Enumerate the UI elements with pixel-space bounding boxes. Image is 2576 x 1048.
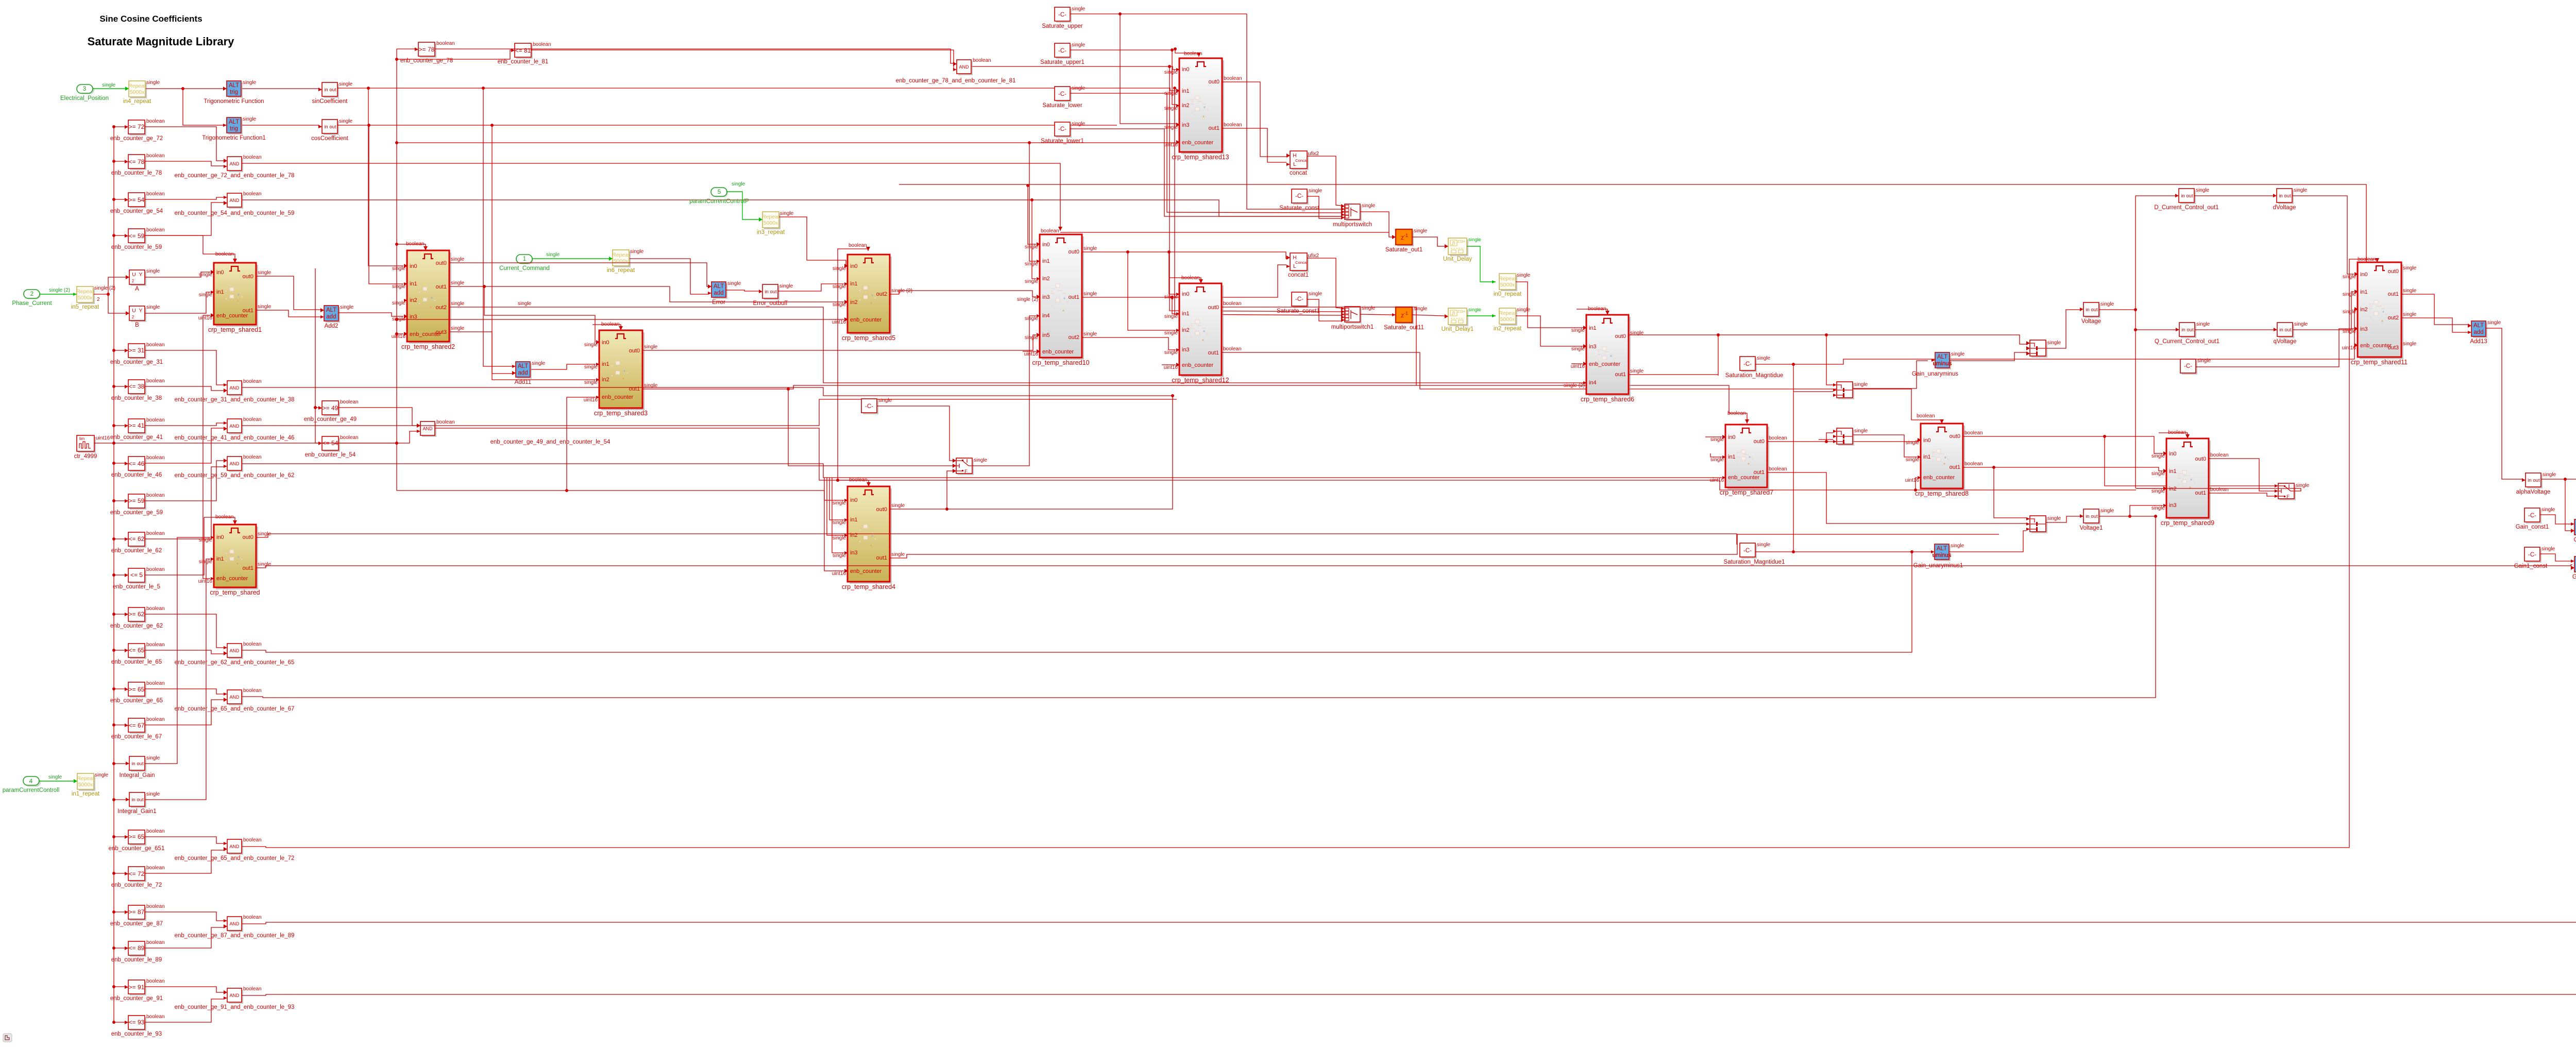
- svg-text:in0: in0: [2169, 451, 2177, 457]
- svg-text:in2: in2: [410, 297, 417, 303]
- wire crp1 out0 to Add2 in1: [256, 276, 320, 310]
- svg-text:enb_counter_le_93: enb_counter_le_93: [111, 1031, 162, 1037]
- svg-text:in: in: [324, 87, 328, 93]
- unit delay Saturate_out1: [1397, 231, 1414, 246]
- svg-text:in2: in2: [850, 299, 858, 306]
- svg-text:in1: in1: [602, 361, 609, 367]
- svg-text:-C-: -C-: [1058, 12, 1066, 18]
- wire crp2 out1 to crp5 in2: [449, 286, 844, 302]
- svg-text:add: add: [2473, 329, 2483, 335]
- svg-text:out: out: [137, 797, 144, 803]
- svg-text:crp_temp_shared4: crp_temp_shared4: [842, 583, 895, 590]
- svg-text:single: single: [2343, 292, 2357, 297]
- svg-text:single: single: [727, 281, 741, 286]
- svg-text:in3: in3: [410, 314, 417, 320]
- svg-text:boolean: boolean: [146, 1014, 165, 1020]
- wire spine to enb_counter_ge_54: [114, 199, 125, 200]
- compare block enb_counter_le_5: [130, 570, 146, 584]
- wire sinCoefficient long line to crp13 in1: [337, 88, 1176, 91]
- svg-text:in1: in1: [1042, 258, 1050, 264]
- wire crp7 out1 long to switch and selector4: [1767, 472, 2026, 523]
- svg-text:enb_counter_le_5: enb_counter_le_5: [113, 584, 160, 590]
- svg-text:boolean: boolean: [1727, 411, 1746, 416]
- svg-text:out1: out1: [2195, 490, 2206, 496]
- svg-text:>= 65: >= 65: [129, 686, 145, 693]
- svg-text:-C-: -C-: [1058, 91, 1066, 97]
- svg-text:enb_counter: enb_counter: [216, 576, 248, 582]
- svg-text:single: single: [2541, 546, 2555, 552]
- svg-text:single: single: [732, 181, 745, 187]
- and gate enb_counter_ge_62_and_enb_counter_le_65: [229, 645, 243, 659]
- wire Current_Command to in6_repeat: [532, 258, 613, 259]
- inout block cosCoefficient: [324, 121, 339, 135]
- and gate enb_counter_ge_72_and_enb_counter_le_78: [229, 158, 243, 172]
- repeat block in3_repeat: [764, 213, 781, 229]
- svg-text:in3: in3: [1589, 344, 1597, 350]
- svg-text:Gain11: Gain11: [2572, 574, 2576, 580]
- svg-text:Gain1: Gain1: [2574, 537, 2576, 543]
- svg-text:enb_counter_ge_91_and_enb_coun: enb_counter_ge_91_and_enb_counter_le_93: [175, 1004, 295, 1010]
- and gate enb_counter_ge_41_and_enb_counter_le_46: [229, 420, 243, 434]
- svg-text:uint16: uint16: [832, 571, 846, 577]
- subsystem crp_temp_shared9: [2168, 441, 2211, 520]
- svg-text:uint16: uint16: [198, 579, 213, 584]
- wire Saturate_const to multiportswitch: [1307, 196, 1341, 218]
- wire le_46 to AND: [145, 428, 224, 463]
- switch block near crp9: [2280, 485, 2296, 500]
- wire spine to enb_counter_ge_41: [114, 425, 125, 426]
- constant block near crp9 area: [2182, 361, 2197, 375]
- wire crp5 enb uint16 from trunk: [397, 319, 844, 320]
- svg-text:single: single: [1951, 351, 1965, 357]
- constant Saturate_lower1: [1056, 124, 1072, 138]
- wire le_62 to AND (59_62): [145, 467, 224, 539]
- svg-text:in1: in1: [2360, 289, 2368, 295]
- wire Add2 out to crp2 in3: [338, 313, 403, 316]
- svg-text:U: U: [132, 308, 135, 314]
- svg-text:-C-: -C-: [1058, 48, 1066, 54]
- svg-text:Gain_const1: Gain_const1: [2516, 524, 2549, 530]
- selector block selector4: [2031, 517, 2047, 533]
- multiport switch multiportswitch: [1346, 206, 1362, 221]
- svg-text:enb_counter_ge_31_and_enb_coun: enb_counter_ge_31_and_enb_counter_le_38: [175, 397, 295, 403]
- unit delay block Unit_Delay: [1450, 240, 1468, 256]
- svg-text:boolean: boolean: [146, 493, 165, 498]
- svg-text:<= 81: <= 81: [515, 47, 531, 54]
- svg-text:Repeat: Repeat: [1499, 276, 1516, 282]
- svg-text:Repeat: Repeat: [612, 252, 630, 258]
- svg-text:2: 2: [132, 279, 134, 283]
- svg-text:Sine Cosine Coefficients: Sine Cosine Coefficients: [99, 14, 202, 24]
- wire crp1 out1 to Add2 in2: [256, 310, 320, 317]
- subsystem crp_temp_shared1: [216, 265, 258, 327]
- wire Add11 to crp3 in1: [531, 364, 596, 369]
- input port 5 paramCurrentControlP: [712, 189, 728, 197]
- wire le_78 to AND: [145, 161, 224, 166]
- svg-text:in3: in3: [1042, 294, 1050, 300]
- svg-text:crp_temp_shared13: crp_temp_shared13: [1172, 154, 1229, 161]
- wire Error to Error_outbuff: [726, 290, 759, 291]
- svg-text:AND: AND: [229, 198, 240, 203]
- wire crp8 out1 to crp9 in1 and selector4: [1963, 467, 2163, 471]
- svg-text:boolean: boolean: [146, 904, 165, 909]
- svg-text:single: single: [340, 305, 354, 310]
- svg-text:single: single: [780, 211, 794, 216]
- svg-text:single: single: [2487, 320, 2501, 326]
- svg-text:>= 62: >= 62: [129, 611, 145, 618]
- svg-text:A: A: [135, 286, 139, 292]
- svg-text:multiportswitch1: multiportswitch1: [1331, 324, 1374, 330]
- svg-text:in4: in4: [1042, 313, 1050, 319]
- svg-text:crp_temp_shared12: crp_temp_shared12: [1172, 377, 1229, 384]
- svg-text:Y: Y: [139, 272, 143, 278]
- svg-text:Repeat: Repeat: [77, 775, 94, 782]
- svg-text:crp_temp_shared6: crp_temp_shared6: [1581, 396, 1634, 403]
- svg-text:boolean: boolean: [243, 454, 262, 460]
- wire ge_41 to AND: [145, 423, 224, 426]
- and gate enb_counter_ge_54_and_enb_counter_le_59: [229, 195, 243, 209]
- svg-text:single: single: [974, 458, 988, 463]
- input port 1 Current_Command: [517, 256, 533, 264]
- selector block A: [131, 272, 146, 286]
- svg-text:out1: out1: [629, 386, 640, 392]
- svg-text:enb_counter_le_54: enb_counter_le_54: [305, 452, 356, 458]
- svg-text:enb_counter_ge_72: enb_counter_ge_72: [110, 136, 163, 142]
- svg-text:boolean: boolean: [1041, 228, 1059, 234]
- wire crp2 out2 long to crp6 in4 single(2): [449, 307, 1583, 383]
- wire selector4 to Voltage1: [2046, 516, 2080, 522]
- svg-text:boolean: boolean: [146, 378, 165, 384]
- svg-text:in: in: [2181, 193, 2184, 199]
- wire Gain1_const to Gain11: [2540, 554, 2572, 561]
- svg-text:enb_counter_le_81: enb_counter_le_81: [498, 59, 548, 65]
- svg-text:in1: in1: [1923, 454, 1931, 460]
- selector block selector1: [2031, 342, 2047, 358]
- wire crp7 out0 to selector3 and crp8 in0: [1767, 440, 1917, 442]
- svg-text:in4_repeat: in4_repeat: [123, 98, 151, 105]
- svg-text:Gain_unaryminus1: Gain_unaryminus1: [1913, 563, 1963, 569]
- wire Gain_const1 to Gain1: [2540, 515, 2572, 524]
- svg-text:single: single: [2403, 341, 2417, 347]
- wire spine to enb_counter_le_78: [114, 161, 125, 162]
- wire crp6 out1: [1629, 374, 1718, 375]
- svg-text:Integral_Gain: Integral_Gain: [119, 772, 155, 779]
- subsystem crp_temp_shared7: [1727, 427, 1769, 489]
- wire concat to multiportswitch: [1307, 156, 1341, 206]
- svg-text:<= 46: <= 46: [129, 460, 145, 467]
- wire multiportswitch1 to Saturate_out11: [1360, 314, 1392, 315]
- svg-text:in1: in1: [1182, 311, 1190, 317]
- svg-text:in2_repeat: in2_repeat: [1494, 326, 1522, 332]
- repeat block in4_repeat: [130, 82, 147, 98]
- svg-text:enb_counter: enb_counter: [1923, 475, 1955, 481]
- svg-text:out0: out0: [876, 506, 887, 513]
- svg-text:single: single: [1025, 244, 1039, 250]
- svg-text:>= 49: >= 49: [323, 404, 338, 412]
- svg-text:AND: AND: [229, 993, 240, 998]
- svg-text:single: single: [518, 301, 532, 307]
- svg-text:boolean: boolean: [1917, 413, 1935, 419]
- and gate enb_counter_ge_65_and_enb_counter_le_72: [229, 841, 243, 855]
- svg-text:single: single: [1309, 188, 1323, 194]
- svg-text:ALT: ALT: [714, 283, 724, 290]
- wire crp13 out0 to concat H: [1222, 82, 1286, 157]
- svg-text:-C-: -C-: [1743, 548, 1752, 554]
- svg-text:boolean: boolean: [1224, 122, 1242, 128]
- svg-text:Saturate_const1: Saturate_const1: [1277, 308, 1320, 314]
- wire spine to enb_counter_ge_651: [114, 836, 125, 837]
- wire spine to enb_counter_le_72: [114, 873, 125, 874]
- subsystem crp_temp_shared (lower): [216, 527, 258, 589]
- and gate enb_counter_ge_65_and_enb_counter_le_67: [229, 691, 243, 705]
- repeat block in1_repeat: [79, 775, 95, 791]
- svg-text:enb_counter_ge_41: enb_counter_ge_41: [110, 434, 163, 441]
- wire Q_Current to qVoltage: [2195, 329, 2274, 330]
- svg-text:single: single: [1083, 291, 1097, 297]
- svg-text:out0: out0: [2388, 268, 2399, 275]
- svg-text:Saturate_const: Saturate_const: [1279, 205, 1319, 211]
- svg-text:boolean: boolean: [243, 986, 262, 992]
- svg-text:uint16: uint16: [1905, 478, 1920, 483]
- svg-text:Error_outbuff: Error_outbuff: [753, 300, 788, 307]
- svg-text:boolean: boolean: [243, 688, 262, 694]
- svg-text:single: single: [146, 791, 160, 797]
- svg-text:<= 89: <= 89: [129, 944, 145, 952]
- svg-text:enb_counter_ge_59_and_enb_coun: enb_counter_ge_59_and_enb_counter_le_62: [175, 472, 295, 479]
- wire A to crp1 in0: [145, 272, 210, 277]
- svg-text:single: single: [1025, 279, 1039, 284]
- wire le_54 to AND (49_54): [338, 431, 417, 443]
- svg-text:boolean: boolean: [243, 379, 262, 384]
- compare block enb_counter_le_54: [324, 438, 340, 452]
- compare block enb_counter_le_67: [130, 720, 146, 734]
- svg-text:boolean: boolean: [1964, 461, 1983, 467]
- svg-text:in1: in1: [1589, 325, 1597, 331]
- svg-text:single: single: [2100, 508, 2114, 514]
- svg-text:boolean: boolean: [1769, 435, 1787, 441]
- wire Gain_unaryminus to selector1: [1950, 352, 2026, 361]
- svg-text:>= 87: >= 87: [129, 908, 145, 916]
- svg-text:AND: AND: [229, 424, 240, 429]
- wire Saturate_out1 to Unit_Delay: [1412, 237, 1445, 246]
- svg-text:single: single: [833, 500, 846, 506]
- wire Unit_Delay to in0_repeat green: [1467, 246, 1496, 282]
- badge icon bottom left: [3, 1034, 12, 1042]
- wire spine to enb_counter_le_59: [114, 235, 125, 236]
- wire Saturation_Magntidue out: [1755, 309, 2354, 364]
- svg-text:single: single: [1854, 382, 1868, 387]
- svg-text:boolean: boolean: [406, 241, 425, 247]
- svg-text:ZOH: ZOH: [1458, 310, 1465, 314]
- compare block enb_counter_ge_91: [130, 982, 146, 995]
- and gate enb_counter_ge_49_and_enb_counter_le_54: [422, 423, 436, 437]
- svg-text:out1: out1: [1069, 294, 1079, 300]
- svg-text:-C-: -C-: [1295, 296, 1303, 302]
- wire dVoltage to crp11 in0: [2292, 196, 2354, 274]
- svg-text:dVoltage: dVoltage: [2273, 205, 2296, 211]
- wire in2_repeat to crp6 in3: [1516, 316, 1583, 346]
- svg-text:boolean: boolean: [243, 417, 262, 422]
- svg-text:enb_counter_ge_54: enb_counter_ge_54: [110, 208, 163, 214]
- repeat block in0_repeat: [1501, 275, 1517, 291]
- wire spine to Integral_Gain1: [114, 799, 126, 800]
- svg-text:single (2): single (2): [1017, 297, 1038, 302]
- svg-text:single: single: [258, 562, 272, 567]
- svg-text:boolean: boolean: [146, 829, 165, 834]
- svg-text:enb_counter: enb_counter: [2360, 343, 2392, 349]
- svg-text:AND: AND: [229, 844, 240, 849]
- wire crp out feeds from Integral_Gain: [145, 537, 210, 764]
- wire crp10 out2 to crp12 in3: [1082, 337, 1176, 350]
- svg-text:in3_repeat: in3_repeat: [757, 229, 785, 235]
- adder Add11: [517, 363, 532, 379]
- svg-text:boolean: boolean: [2210, 452, 2229, 458]
- svg-text:boolean: boolean: [146, 191, 165, 197]
- svg-text:in3: in3: [850, 550, 858, 556]
- constant Saturate_const1: [1293, 294, 1309, 308]
- svg-text:enb_counter: enb_counter: [850, 317, 882, 323]
- svg-text:5000x: 5000x: [1500, 316, 1515, 323]
- wire trunk to ge_78: [397, 48, 415, 49]
- svg-text:Saturation_Magntidue1: Saturation_Magntidue1: [1724, 559, 1785, 565]
- trig block Trigonometric Function: [228, 82, 243, 98]
- svg-text:single: single: [1757, 356, 1771, 361]
- svg-text:in4: in4: [1589, 380, 1597, 386]
- adder Add13: [2473, 323, 2487, 338]
- subsystem crp_temp_shared4: [850, 488, 892, 584]
- constant Saturate_const: [1293, 191, 1309, 205]
- wire spine to enb_counter_le_93: [114, 1022, 125, 1023]
- negate block Gain_unaryminus1: [1936, 546, 1951, 561]
- svg-text:enb_counter: enb_counter: [850, 568, 882, 574]
- wire crp2 out1 branch to crp3 in0: [484, 286, 596, 342]
- svg-text:single: single: [2151, 471, 2165, 477]
- svg-text:boolean: boolean: [2168, 430, 2187, 435]
- svg-text:boolean: boolean: [1769, 466, 1787, 472]
- svg-text:single (2): single (2): [1564, 383, 1585, 388]
- wire Voltage1 out to crp9 in3: [2099, 505, 2163, 516]
- svg-text:<= 67: <= 67: [129, 722, 145, 729]
- svg-text:out2: out2: [436, 305, 447, 311]
- svg-text:U: U: [132, 272, 135, 278]
- svg-text:single: single: [1517, 273, 1531, 278]
- svg-text:single: single: [258, 304, 272, 310]
- and gate enb_counter_ge_87_and_enb_counter_le_89: [229, 918, 243, 932]
- wire ge_59 to AND (59_62): [145, 461, 224, 501]
- enable wire crp_temp_shared3: [592, 325, 621, 330]
- wire crp9 out0 to switch: [2209, 459, 2275, 491]
- svg-text:single: single: [584, 364, 598, 370]
- enable wire crp_temp_shared12: [1170, 278, 1201, 283]
- svg-text:in1: in1: [1728, 454, 1736, 460]
- svg-text:single (2): single (2): [49, 288, 70, 293]
- svg-text:out: out: [329, 87, 336, 93]
- svg-text:out1: out1: [876, 555, 887, 561]
- svg-text:single: single: [199, 559, 213, 565]
- svg-text:Unit_Delay1: Unit_Delay1: [1442, 326, 1474, 332]
- svg-text:single: single: [258, 270, 272, 276]
- wire const to crp11 in3: [2196, 329, 2354, 367]
- wire crp12 out0 to crp7 enable: [1222, 307, 1747, 424]
- svg-text:out: out: [137, 761, 144, 767]
- svg-text:enb_counter_le_62: enb_counter_le_62: [111, 548, 162, 554]
- wire le_59 to crp1 enable: [145, 235, 203, 254]
- svg-text:ZOH: ZOH: [1458, 240, 1465, 244]
- svg-text:single: single: [1072, 86, 1086, 91]
- svg-text:out1: out1: [1615, 371, 1626, 378]
- svg-text:enb_counter_ge_31: enb_counter_ge_31: [110, 359, 163, 365]
- svg-text:boolean: boolean: [1588, 306, 1606, 312]
- svg-text:paramCurrentControlP: paramCurrentControlP: [689, 198, 749, 205]
- svg-text:in0: in0: [602, 340, 609, 346]
- svg-text:single: single: [48, 774, 62, 780]
- wire crp10 out0 to concat1 and crp12: [1082, 252, 1286, 259]
- svg-text:in2: in2: [1042, 276, 1050, 282]
- svg-text:out1: out1: [1950, 464, 1960, 470]
- wire crp7 in0 in1 feeds: [1705, 436, 1722, 437]
- svg-text:in0: in0: [850, 497, 858, 503]
- wire Saturate_upper to crp13 in3: [1070, 13, 1247, 14]
- subsystem crp_temp_shared8: [1923, 426, 1965, 491]
- svg-text:enb_counter_ge_65_and_enb_coun: enb_counter_ge_65_and_enb_counter_le_72: [175, 855, 295, 861]
- wire multiportswitch to Saturate_out1: [1360, 212, 1392, 237]
- svg-text:Voltage: Voltage: [2081, 318, 2101, 325]
- svg-text:AND: AND: [229, 648, 240, 653]
- svg-text:in2: in2: [1182, 327, 1190, 333]
- svg-text:enb_counter_ge_49: enb_counter_ge_49: [304, 416, 357, 422]
- svg-text:Gain_unaryminus: Gain_unaryminus: [1912, 371, 1958, 377]
- wire Saturate_upper drop to multiportswitch: [1247, 14, 1341, 209]
- wire in3_repeat to crp5 in0: [779, 217, 848, 266]
- and gate enb_counter_ge_78_and_enb_counter_le_81: [958, 61, 973, 75]
- svg-text:uint16: uint16: [1024, 351, 1039, 357]
- svg-text:5000x: 5000x: [614, 258, 629, 264]
- svg-text:add: add: [714, 290, 723, 296]
- wire crp4 out1 long line y1076: [890, 534, 1999, 558]
- svg-text:in0: in0: [1182, 291, 1190, 297]
- svg-text:single: single: [1362, 306, 1376, 311]
- wire spine branch to ge_49 le_54: [315, 268, 316, 443]
- svg-text:Repeat: Repeat: [128, 83, 146, 89]
- compare block enb_counter_ge_31: [130, 345, 146, 359]
- svg-text:enb_counter_ge_49_and_enb_coun: enb_counter_ge_49_and_enb_counter_le_54: [490, 439, 611, 445]
- wire crp9 out1 to switch in3: [2209, 493, 2275, 496]
- svg-text:crp_temp_shared: crp_temp_shared: [210, 589, 260, 596]
- wire le_38 to AND: [145, 386, 224, 391]
- svg-text:in1: in1: [850, 517, 858, 523]
- wire crp6 enb stub: [1571, 363, 1583, 364]
- svg-text:boolean: boolean: [146, 455, 165, 461]
- svg-text:in: in: [2528, 478, 2531, 483]
- repeat block in5_repeat: [78, 288, 95, 304]
- svg-text:uint16: uint16: [1710, 478, 1724, 483]
- wire crp2 enb feed from trunk: [397, 333, 403, 334]
- svg-text:single: single: [146, 755, 160, 761]
- selector block selector3: [1838, 430, 1854, 446]
- wire crp3 out0 to crp10 in5: [642, 335, 1036, 350]
- constant Gain1_const: [2526, 549, 2541, 563]
- svg-text:ALT: ALT: [1937, 546, 1947, 552]
- input port 4 paramCurrentControll: [25, 778, 41, 787]
- wire bundle vertical to multiportswitch1 a: [1170, 66, 1341, 312]
- svg-text:>= 91: >= 91: [129, 984, 145, 991]
- enable wire crp_temp_shared6: [1577, 309, 1607, 315]
- wire le_89 to AND (87_89): [145, 927, 224, 948]
- svg-text:single: single: [1025, 316, 1039, 322]
- svg-text:Phase_Current: Phase_Current: [12, 300, 52, 307]
- svg-text:single: single: [2296, 483, 2310, 488]
- svg-text:out0: out0: [1208, 305, 1219, 311]
